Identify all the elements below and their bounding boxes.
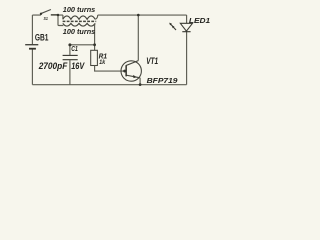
svg-text:GB1: GB1	[35, 33, 49, 43]
svg-text:BFP719: BFP719	[147, 78, 178, 85]
svg-text:LED1: LED1	[189, 16, 210, 25]
svg-text:16V: 16V	[71, 61, 85, 71]
svg-text:2700pF: 2700pF	[38, 61, 68, 71]
svg-text:S1: S1	[44, 16, 49, 22]
svg-text:100 turns: 100 turns	[63, 5, 95, 14]
svg-text:1k: 1k	[99, 59, 105, 66]
svg-text:C1: C1	[71, 44, 78, 53]
svg-text:VT1: VT1	[146, 56, 158, 66]
svg-text:100 turns: 100 turns	[63, 27, 95, 36]
